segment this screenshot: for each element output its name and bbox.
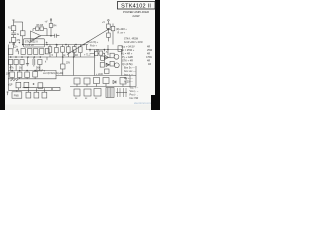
resistor R17	[111, 26, 115, 31]
svg-text:xQP: xQP	[8, 85, 13, 87]
capacitor C19	[74, 89, 80, 96]
svg-text:(R)+4R2 +: (R)+4R2 +	[116, 29, 127, 31]
resistor R5	[21, 49, 25, 55]
capacitor C15	[34, 92, 39, 98]
svg-text:2(5+4.7k) +: 2(5+4.7k) +	[87, 42, 99, 44]
svg-text:STK4102 II: STK4102 II	[25, 40, 38, 44]
capacitor C11	[24, 82, 29, 88]
plus mark	[33, 83, 35, 85]
capacitor C17	[100, 63, 104, 68]
electrolytic capacitor C23	[118, 88, 127, 97]
svg-text:2x6W: 2x6W	[132, 14, 140, 18]
svg-text:R-ch +: R-ch +	[90, 45, 97, 47]
capacitor C24	[105, 69, 110, 74]
top rail	[23, 44, 88, 46]
wires row A down	[11, 65, 40, 71]
left schematic border vertical	[7, 45, 9, 91]
node	[50, 35, 51, 36]
wire down to rail	[13, 42, 15, 48]
capacitor C12	[38, 83, 43, 89]
resistor R27	[99, 51, 103, 55]
svg-text:fo 20 ---: fo 20 ---	[124, 81, 133, 84]
wire riser	[86, 45, 88, 50]
svg-text:C2+: C2+	[14, 47, 19, 49]
vertical risers output	[104, 45, 136, 87]
wire	[13, 31, 15, 33]
wire	[50, 27, 52, 35]
bottom-right black corner	[151, 95, 160, 110]
resistor R26	[94, 52, 98, 56]
wire	[107, 28, 109, 29]
resistor R9	[34, 49, 38, 55]
svg-text:25V: 25V	[66, 63, 71, 65]
resistor R18	[17, 72, 22, 78]
capacitor C4	[61, 47, 65, 53]
+Vcc symbol	[50, 19, 52, 21]
wire tick	[46, 57, 48, 60]
resistor R23	[67, 47, 71, 53]
input terminal P	[12, 20, 15, 26]
right mid rail	[56, 75, 136, 77]
capacitor C2	[9, 49, 13, 55]
resistor R7	[28, 49, 32, 55]
left rail 4	[8, 89, 60, 91]
diode D2	[106, 63, 109, 66]
plus marks	[16, 49, 19, 55]
capacitor C7	[33, 57, 35, 67]
wire upper bottom-left	[23, 87, 61, 90]
svg-text:FMB: FMB	[14, 95, 19, 97]
resistor R21	[48, 47, 52, 53]
wires from band1 boxes to mid rail	[50, 53, 80, 57]
wire to second column	[14, 21, 23, 23]
svg-text:R6 R8: R6 R8	[37, 25, 44, 27]
inductor L1	[101, 56, 105, 60]
wire	[112, 24, 114, 45]
capacitor C10	[16, 82, 21, 88]
resistor R15	[107, 24, 111, 28]
resistor R24	[73, 47, 77, 53]
resistor R16	[107, 33, 111, 37]
svg-text:+ x100: + x100	[96, 74, 104, 76]
capacitor C13	[26, 92, 31, 98]
wires to lower rail	[77, 76, 130, 87]
plus mark	[51, 88, 53, 90]
plus specks	[46, 42, 48, 44]
capacitor C16	[42, 92, 47, 98]
resistor R11	[9, 60, 13, 65]
svg-text:STK4.. 4R2W: STK4.. 4R2W	[124, 39, 139, 41]
capacitor C3	[55, 34, 60, 38]
svg-text:+V: +V	[45, 22, 48, 24]
junction dots on top rail	[22, 44, 23, 45]
resistor R31	[84, 78, 90, 84]
resistor R3	[20, 31, 25, 36]
wire	[22, 22, 24, 45]
resistor R30	[74, 78, 80, 84]
+Vcc symbol 2	[108, 20, 110, 22]
resistor R6	[36, 27, 39, 31]
svg-text:bxx VW: bxx VW	[130, 97, 139, 100]
svg-text:+V: +V	[102, 22, 105, 24]
resistor R14	[10, 72, 15, 78]
IC label box	[24, 39, 45, 47]
resistor R4 top	[49, 24, 53, 28]
mid vertical risers	[73, 50, 75, 76]
svg-text:STK4102 II: STK4102 II	[121, 3, 151, 9]
resistor R10	[40, 49, 44, 55]
right black margin bar	[155, 0, 160, 110]
ground hatching	[11, 79, 19, 81]
diode D3	[113, 81, 116, 84]
resistor R29	[110, 61, 114, 66]
svg-text:1R: 1R	[148, 63, 151, 66]
diode D1	[105, 56, 109, 60]
mid rail	[8, 56, 95, 58]
capacitor C21	[94, 89, 101, 97]
capacitor C9	[118, 46, 122, 52]
svg-text:xxx=(0.5k/1.2k)+4R: xxx=(0.5k/1.2k)+4R	[43, 73, 63, 75]
svg-text:R. on +: R. on +	[118, 33, 126, 35]
box F1	[12, 92, 22, 98]
cap specks left of rail	[9, 42, 20, 45]
left black margin bar	[0, 0, 5, 110]
node dots	[90, 49, 91, 50]
resistor R33	[103, 78, 109, 84]
wires output	[90, 50, 115, 65]
left rail 3 (ground)	[8, 78, 56, 80]
capacitor C18	[120, 78, 126, 85]
right lower rail	[70, 86, 136, 88]
resistor R28	[110, 53, 114, 58]
resistor R1	[11, 26, 16, 31]
capacitor C14	[61, 64, 65, 69]
capacitor C1	[11, 33, 16, 38]
resistor R25	[79, 47, 83, 53]
output top rail	[86, 49, 122, 51]
resistor R12	[20, 60, 24, 65]
long diagonal wire to channel 2	[67, 30, 108, 55]
left rail 2	[8, 70, 56, 72]
resistor R19	[25, 72, 30, 78]
capacitor C6	[14, 60, 18, 65]
resistor R22	[55, 47, 59, 52]
svg-text:4R: 4R	[96, 49, 99, 52]
resistor R20	[33, 72, 38, 78]
resistor R8	[40, 27, 44, 31]
speaker terminal SP1	[114, 54, 119, 59]
vertical connectors rails 2-3	[12, 71, 56, 79]
capacitor C22	[106, 88, 114, 98]
resistor R2	[11, 38, 16, 43]
resistor R10b	[45, 49, 49, 54]
vertical from mid rail to cap C14	[62, 57, 64, 64]
svg-text:+ 71.2: + 71.2	[84, 55, 91, 57]
speaker terminal SP2	[114, 63, 119, 68]
feedback diagonal wire	[29, 36, 39, 43]
svg-text:eleccircuit.com: eleccircuit.com	[134, 101, 151, 105]
capacitor C20	[84, 89, 91, 96]
wire channel2	[108, 29, 111, 31]
svg-text:10P: 10P	[6, 74, 11, 76]
title box	[118, 2, 156, 10]
paper bottom shading	[5, 105, 151, 111]
resistor R32	[94, 78, 100, 84]
svg-text:RxRxP-x: RxRxP-x	[36, 70, 46, 72]
op-amp U1a	[31, 31, 42, 41]
ground	[26, 57, 29, 66]
terminal a	[7, 92, 9, 96]
wire resistor row	[33, 29, 47, 36]
resistor R13	[38, 60, 42, 65]
svg-text:3x1R +R17+ 4CW: 3x1R +R17+ 4CW	[124, 42, 143, 44]
svg-text:L-ch +0: L-ch +0	[26, 44, 35, 47]
wire output U1a	[41, 35, 55, 37]
svg-text:4R: 4R	[75, 55, 78, 57]
